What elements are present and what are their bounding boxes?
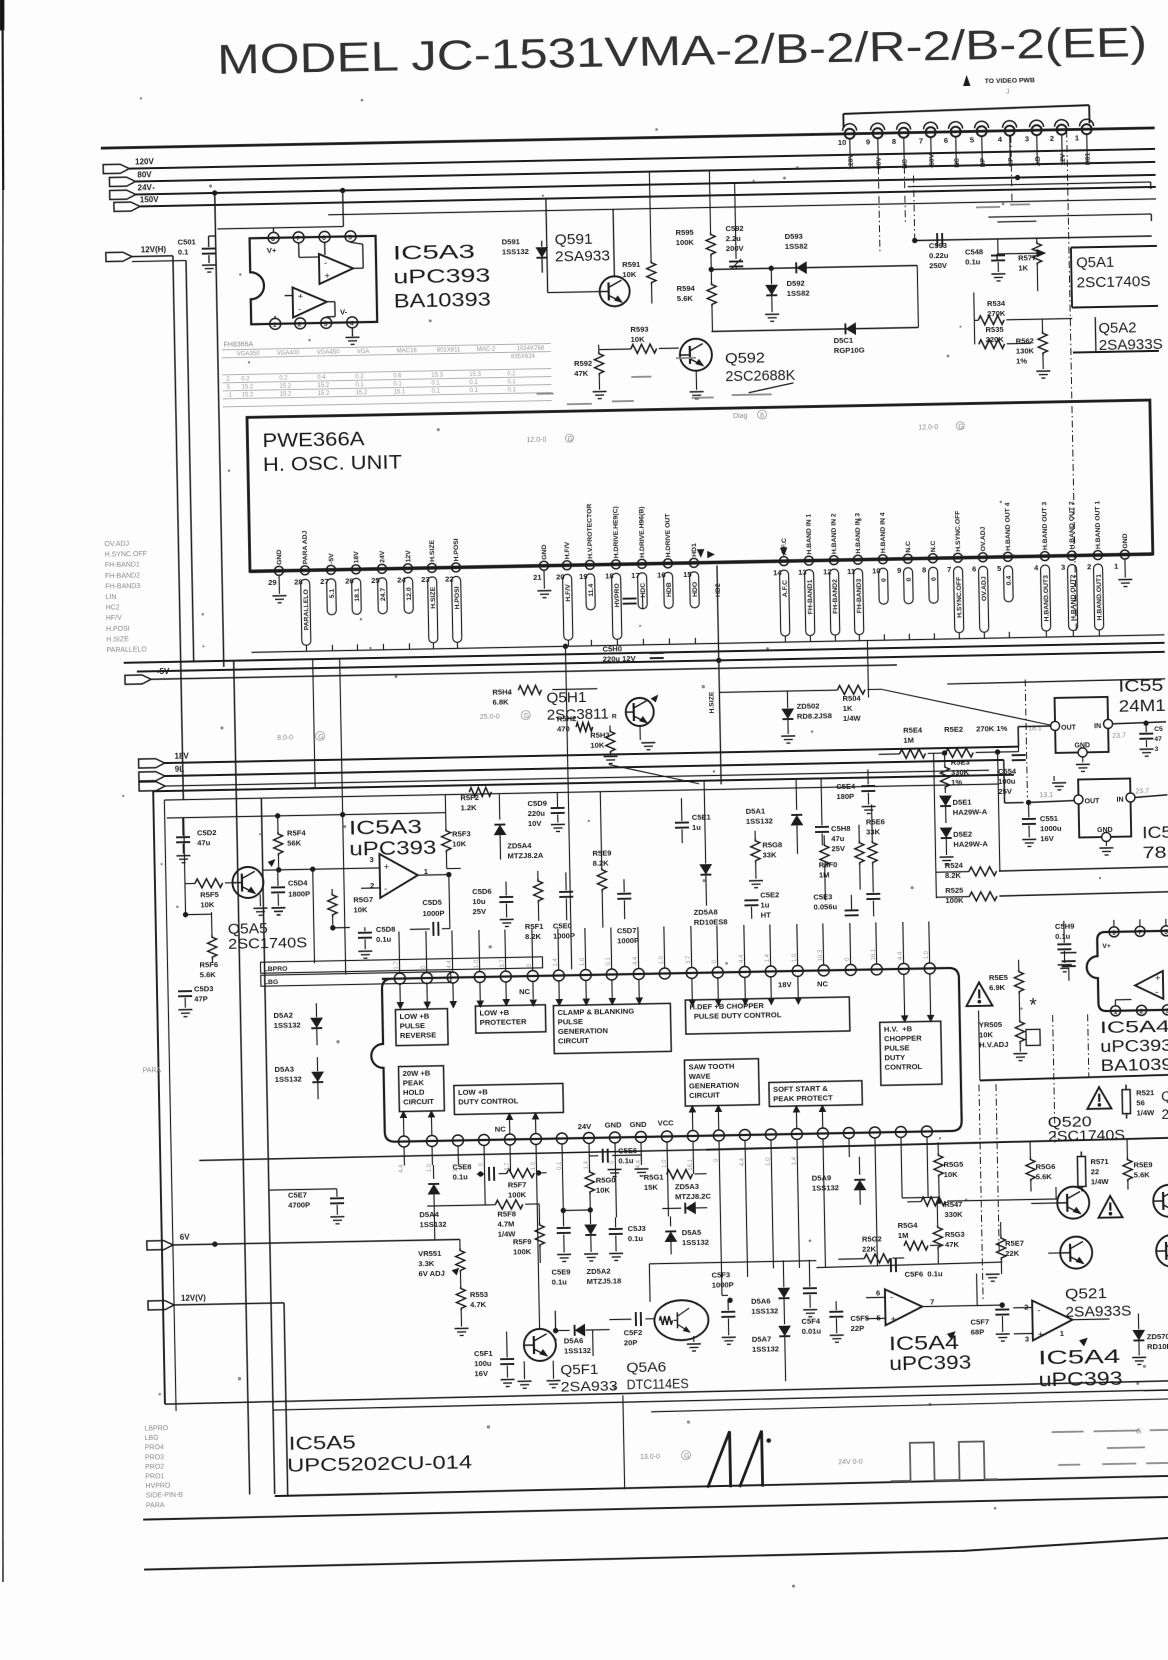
capacitor C5E8 (452, 1161, 541, 1182)
svg-text:H. OSC. UNIT: H. OSC. UNIT (263, 452, 403, 476)
svg-text:10K: 10K (944, 1170, 959, 1179)
svg-text:IN: IN (1116, 797, 1123, 804)
diode D5C1 (710, 265, 919, 357)
capacitor C5D2 (176, 817, 217, 863)
diode ZD502 (780, 690, 832, 743)
wire Q5A1 input arrow (997, 250, 1045, 260)
pin 3 PWE366A (1060, 501, 1078, 637)
svg-text:5.6K: 5.6K (677, 294, 694, 303)
capacitor C592 (725, 183, 745, 269)
svg-text:23.7: 23.7 (1135, 788, 1149, 795)
transistor Q591 (546, 197, 630, 308)
svg-text:3: 3 (1154, 746, 1158, 753)
svg-text:SAW TOOTH: SAW TOOTH (688, 1062, 734, 1072)
svg-text:1K: 1K (843, 704, 853, 713)
pin 18 PWE366A (604, 506, 622, 645)
connector pin 5 video (969, 121, 989, 167)
wire main block top (153, 775, 1026, 1404)
svg-text:3: 3 (324, 321, 328, 328)
pin 9 IC5A4 top (1109, 920, 1119, 937)
svg-text:R504: R504 (842, 694, 861, 703)
svg-text:PULSE: PULSE (558, 1017, 583, 1026)
svg-text:1000P: 1000P (712, 1280, 734, 1289)
svg-text:Q591: Q591 (555, 232, 593, 249)
resistor R5G8 (748, 830, 783, 888)
svg-text:100K: 100K (513, 1247, 532, 1256)
block LOW +B DUTY CONTROL (454, 1083, 564, 1114)
svg-text:C5D9: C5D9 (527, 799, 547, 808)
node PARA (142, 1067, 161, 1074)
svg-text:IC5A5: IC5A5 (289, 1432, 356, 1453)
wire bottom frame E (144, 1538, 1168, 1570)
svg-text:3: 3 (1025, 1335, 1029, 1344)
svg-text:R5E6: R5E6 (866, 817, 885, 826)
pin bottom 17 IC5A5 (817, 1128, 829, 1158)
svg-text:FH-BAND3: FH-BAND3 (105, 583, 140, 591)
svg-text:0.1: 0.1 (469, 388, 478, 394)
svg-text:LOW +B: LOW +B (458, 1087, 488, 1097)
svg-text:1SS82: 1SS82 (785, 242, 808, 251)
wire Q520 node (979, 1007, 1168, 1081)
capacitor C5F3 (711, 1270, 735, 1344)
pin 3 IC5A3 (321, 317, 332, 328)
svg-text:6: 6 (322, 235, 326, 242)
svg-text:1%: 1% (951, 778, 962, 787)
pin 2 IC5A3 (295, 318, 306, 329)
svg-text:56K: 56K (287, 838, 302, 847)
svg-text:12V(V): 12V(V) (181, 1293, 206, 1302)
transistor Q592 (680, 337, 796, 399)
svg-text:D592: D592 (786, 279, 804, 288)
svg-text:H.F/V: H.F/V (565, 584, 572, 602)
capacitor C5E4 (836, 769, 876, 814)
svg-text:R: R (612, 713, 617, 720)
svg-text:250V: 250V (929, 261, 948, 270)
svg-text:H.BAND OUT 2: H.BAND OUT 2 (1068, 501, 1076, 550)
svg-text:0.1u: 0.1u (453, 1172, 469, 1181)
svg-text:12V(H): 12V(H) (141, 245, 167, 254)
svg-text:12.0-0: 12.0-0 (918, 424, 938, 431)
svg-text:C501: C501 (178, 237, 197, 246)
note 8.0-0 G (277, 731, 325, 741)
pin bottom 19 IC5A5 (869, 1127, 881, 1157)
svg-text:D5E1: D5E1 (952, 798, 972, 807)
svg-text:CONTROL: CONTROL (885, 1062, 923, 1072)
resistor R592 (574, 344, 607, 399)
label IC5A5 pin names (492, 979, 831, 1133)
node LBPRO (260, 957, 542, 973)
svg-text:SIDE-PIN-B: SIDE-PIN-B (146, 1492, 184, 1500)
pin 7 IC5A4 top (1135, 919, 1145, 936)
svg-text:1/4W: 1/4W (843, 714, 862, 723)
svg-text:DUTY CONTROL: DUTY CONTROL (458, 1096, 519, 1106)
label IC5A5 UPC5202 (287, 1430, 473, 1476)
capacitor C5D5 (409, 875, 450, 937)
svg-text:H.SYNC.OFF: H.SYNC.OFF (105, 551, 148, 559)
pin bottom 1 IC5A5 (398, 1136, 410, 1166)
svg-text:GENERATION: GENERATION (558, 1026, 608, 1036)
svg-text:0.4: 0.4 (317, 375, 326, 381)
svg-text:10K: 10K (452, 839, 467, 848)
svg-text:CIRCUIT: CIRCUIT (689, 1090, 720, 1100)
svg-text:H.V.ADJ: H.V.ADJ (979, 1040, 1008, 1050)
svg-text:2SA933S: 2SA933S (1065, 1304, 1131, 1321)
waveform square (890, 1441, 998, 1481)
svg-text:HT: HT (761, 910, 772, 919)
svg-text:1.0: 1.0 (662, 1159, 668, 1168)
transistor Q525 right (1156, 1234, 1168, 1267)
pin bottom 2 IC5A5 (426, 1135, 438, 1165)
svg-text:1000P: 1000P (553, 931, 575, 940)
connector J-video bracket (843, 105, 1089, 128)
svg-text:33K: 33K (866, 827, 881, 836)
pin top 6 IC5A5 (526, 929, 538, 982)
wire bottom pin extensions (399, 1154, 942, 1334)
svg-text:GND: GND (630, 1120, 648, 1129)
svg-text:MAC16: MAC16 (397, 348, 418, 354)
svg-text:8.0-0: 8.0-0 (277, 735, 293, 742)
waveform sawtooth (707, 1431, 772, 1488)
svg-text:2: 2 (1087, 562, 1091, 571)
svg-text:24V: 24V (138, 183, 153, 192)
svg-text:UPC5202CU-014: UPC5202CU-014 (287, 1452, 472, 1476)
wire 9L bus (139, 749, 1024, 820)
pin bottom 7 IC5A5 (556, 1133, 568, 1163)
svg-text:DTC114ES: DTC114ES (627, 1376, 689, 1392)
svg-text:130K: 130K (1016, 346, 1035, 355)
ground IC551 (1076, 757, 1090, 771)
svg-text:D593: D593 (785, 232, 803, 241)
svg-text:GND: GND (1074, 742, 1090, 749)
resistor R562 (1015, 319, 1050, 379)
diode D593 (711, 230, 918, 275)
pin bottom 18 IC5A5 (843, 1127, 855, 1157)
resistor R5G6 (1026, 1140, 1056, 1192)
svg-text:PRO4: PRO4 (145, 1444, 164, 1451)
svg-text:2SA933S: 2SA933S (1099, 337, 1163, 354)
svg-text:2SC1740S: 2SC1740S (1076, 274, 1150, 291)
capacitor C5D9 (527, 792, 565, 832)
svg-text:D5A7: D5A7 (752, 1335, 772, 1344)
svg-text:G: G (318, 734, 324, 741)
svg-text:68P: 68P (971, 1327, 985, 1336)
capacitor C5H0 (602, 643, 663, 663)
pin 8 PWE366A (922, 540, 939, 639)
svg-text:R5G3: R5G3 (945, 1230, 965, 1239)
svg-text:Q592: Q592 (725, 350, 765, 367)
pin bottom 3 IC5A5 (452, 1135, 464, 1165)
capacitor C501 (178, 236, 217, 273)
transistor Q524 right (1153, 1185, 1168, 1218)
svg-text:H.BAND OUT 4: H.BAND OUT 4 (1004, 502, 1012, 551)
svg-text:G: G (684, 1453, 690, 1460)
svg-text:25.0-0: 25.0-0 (480, 714, 500, 721)
capacitor C5E6 (589, 1146, 649, 1177)
pin top 8 IC5A5 (579, 928, 591, 981)
svg-text:H.BAND.OUT3: H.BAND.OUT3 (1043, 575, 1051, 622)
svg-text:0.1u: 0.1u (965, 257, 981, 266)
svg-text:16.1: 16.1 (871, 948, 877, 960)
label IC5A4 BA10393 (1100, 1017, 1168, 1075)
svg-text:R5F6: R5F6 (199, 960, 218, 969)
svg-text:22P: 22P (851, 1324, 865, 1333)
svg-text:IC5A3: IC5A3 (393, 242, 475, 265)
label IC5A4a (889, 1333, 972, 1376)
svg-text:5.6K: 5.6K (1036, 1172, 1053, 1181)
svg-text:H01: H01 (1085, 152, 1092, 165)
svg-text:Q5F1: Q5F1 (560, 1362, 598, 1378)
svg-text:1000P: 1000P (617, 936, 639, 945)
resistor R571 (1077, 1151, 1110, 1192)
svg-text:H.BAND.OUT2: H.BAND.OUT2 (1070, 574, 1078, 621)
resistor R553 (453, 1272, 488, 1336)
svg-text:R5F8: R5F8 (497, 1209, 516, 1218)
svg-text:11: 11 (847, 567, 856, 576)
svg-text:0.1: 0.1 (355, 382, 364, 388)
pin 2 IC5A4 bottom (1136, 1005, 1146, 1015)
capacitor C5D3 (178, 984, 214, 1017)
svg-text:15.2: 15.2 (356, 390, 368, 396)
wire main top bus (101, 128, 1155, 148)
transistor Q520 label (1048, 1114, 1126, 1145)
capacitor C5D7 (616, 879, 639, 945)
svg-text:4.4: 4.4 (399, 1164, 405, 1173)
wire bus under PWE B (124, 643, 1165, 663)
wire 6V rail (147, 1227, 460, 1250)
transistor Q5A5 (227, 859, 308, 952)
label IC5A4b (1038, 1347, 1123, 1392)
svg-text:MTZJ5.18: MTZJ5.18 (587, 1276, 622, 1286)
block H.V. CHOPPER (880, 1021, 942, 1085)
capacitor C5J3 (608, 1217, 646, 1261)
wire dashed right vertical (1067, 131, 1077, 631)
capacitor C5E2 (744, 890, 780, 920)
svg-text:A.F.C: A.F.C (782, 580, 789, 597)
svg-text:RD8.2JS8: RD8.2JS8 (797, 711, 832, 721)
pin bottom 20 IC5A5 (895, 1126, 907, 1156)
capacitor C5F5 (829, 1301, 870, 1343)
svg-text:D591: D591 (502, 237, 521, 246)
svg-text:7: 7 (919, 136, 923, 145)
svg-text:BA1039: BA1039 (1100, 1055, 1168, 1075)
pin 5 IC5A4 top (1161, 919, 1168, 936)
svg-text:HDB: HDB (666, 582, 673, 597)
capacitor C5F1 (474, 1331, 561, 1390)
svg-text:4700P: 4700P (288, 1200, 310, 1209)
svg-text:24V: 24V (379, 550, 386, 563)
capacitor C5F2 (609, 1312, 656, 1348)
pin 5 PWE366A (996, 502, 1014, 638)
svg-text:1SS132: 1SS132 (502, 247, 529, 257)
potentiometer YR505 (979, 1019, 1041, 1061)
svg-text:4.4: 4.4 (633, 956, 639, 965)
svg-text:VGA450: VGA450 (317, 350, 340, 356)
pin top 12 IC5A5 (685, 926, 697, 979)
svg-text:HA29W-A: HA29W-A (953, 839, 988, 849)
transistor Q5A1 block (1071, 246, 1158, 308)
resistor R5F5 (181, 817, 232, 917)
svg-text:-: - (1037, 1305, 1040, 1316)
wire dashdot col B (996, 1084, 999, 1254)
diode D591 (502, 237, 548, 274)
resistor R5E2 (933, 724, 1019, 758)
svg-text:2SC1740S: 2SC1740S (228, 935, 307, 953)
svg-text:R521: R521 (1136, 1088, 1155, 1097)
svg-text:0.1: 0.1 (393, 381, 402, 387)
svg-text:Q5: Q5 (1161, 1089, 1168, 1104)
svg-text:Diag: Diag (733, 413, 748, 420)
svg-text:8.2K: 8.2K (593, 859, 610, 868)
resistor R5E4 (878, 725, 934, 759)
svg-text:1.0: 1.0 (766, 1157, 772, 1166)
svg-text:80V: 80V (876, 157, 883, 170)
svg-text:HF/V: HF/V (106, 615, 122, 622)
wire main block inner (164, 784, 1011, 1411)
svg-text:47u: 47u (831, 834, 845, 843)
svg-text:GND: GND (541, 544, 548, 559)
pin 6 PWE366A (971, 526, 989, 638)
node bottom-left signal labels (144, 1425, 183, 1510)
pin 12 PWE366A (822, 513, 840, 641)
svg-text:ZD502: ZD502 (797, 701, 820, 710)
block CLAMP BLANKING (553, 1003, 671, 1053)
svg-text:H.POSI: H.POSI (454, 586, 461, 609)
svg-text:H.SYNC.OFF: H.SYNC.OFF (954, 511, 962, 552)
svg-text:10K: 10K (979, 1030, 994, 1039)
svg-text:+: + (384, 862, 390, 873)
pin top 19 IC5A5 (870, 922, 882, 975)
svg-text:LIN: LIN (105, 594, 116, 601)
wire reg2 in (1135, 795, 1167, 798)
svg-text:11.4: 11.4 (588, 584, 595, 597)
capacitor C548 (965, 239, 1006, 282)
wire connector stub lines (878, 136, 1013, 255)
label IC552 7805 (1142, 823, 1168, 863)
svg-text:NC: NC (954, 158, 961, 168)
diode ZD5A3 (662, 1182, 712, 1214)
svg-text:D5A1: D5A1 (746, 807, 766, 816)
svg-text:OV.ADJ: OV.ADJ (980, 526, 987, 551)
svg-text:1.0: 1.0 (580, 957, 586, 966)
svg-text:0.1: 0.1 (606, 956, 612, 965)
ground IC5A3 pin4 (345, 328, 359, 344)
svg-text:47P: 47P (194, 994, 208, 1003)
svg-text:18V: 18V (353, 551, 360, 564)
svg-text:HDC: HDC (640, 583, 647, 598)
connector pin 4 video (997, 121, 1017, 167)
resistor R5E6 (854, 804, 887, 917)
pin top 4 IC5A5 (473, 930, 485, 983)
svg-text:1.7: 1.7 (394, 961, 400, 970)
svg-text:PULSE DUTY CONTROL: PULSE DUTY CONTROL (690, 1010, 782, 1021)
svg-text:uPC393: uPC393 (889, 1353, 971, 1376)
diode ZD5A8 (691, 780, 728, 927)
pin top 3 IC5A5 (446, 930, 458, 983)
svg-text:6.8K: 6.8K (492, 697, 509, 706)
svg-text:100K: 100K (676, 238, 695, 247)
svg-text:C5F1: C5F1 (474, 1349, 494, 1358)
resistor R594 (676, 269, 717, 332)
svg-text:12V: 12V (405, 550, 412, 563)
resistor R5G1 (644, 1169, 707, 1192)
svg-text:4.7M: 4.7M (497, 1219, 514, 1228)
svg-text:10K: 10K (622, 270, 637, 279)
svg-text:Q521: Q521 (1065, 1286, 1107, 1303)
svg-text:15.2: 15.2 (241, 384, 253, 390)
pin bottom 12 IC5A5 (687, 1130, 699, 1160)
wire reg1 out (1018, 725, 1050, 728)
note 13.0-0 G (640, 1451, 691, 1461)
svg-text:R553: R553 (470, 1290, 488, 1299)
wire right mid vertical (995, 750, 1002, 871)
svg-text:R5G0: R5G0 (596, 1175, 616, 1184)
svg-text:47K: 47K (574, 369, 589, 378)
svg-text:VGA400: VGA400 (277, 350, 300, 356)
svg-text:C5E0: C5E0 (553, 921, 572, 930)
svg-text:1.4: 1.4 (553, 958, 559, 967)
svg-text:C5E1: C5E1 (692, 813, 712, 822)
svg-text:1SS132: 1SS132 (751, 1306, 778, 1316)
svg-text:8: 8 (922, 565, 926, 574)
svg-text:YR505: YR505 (979, 1020, 1003, 1029)
svg-text:0.1u: 0.1u (1055, 932, 1071, 941)
svg-text:0.6: 0.6 (393, 373, 402, 379)
block LOW +B PULSE REVERSE (395, 1009, 448, 1046)
svg-text:12.0: 12.0 (406, 587, 413, 601)
pin bottom 14 IC5A5 (739, 1129, 751, 1159)
svg-text:C5D3: C5D3 (194, 984, 214, 993)
svg-text:150V: 150V (140, 195, 160, 204)
svg-text:8: 8 (892, 137, 896, 146)
resistor R5G2 (838, 1234, 905, 1264)
svg-text:PULSE: PULSE (884, 1043, 909, 1052)
svg-text:0.1u: 0.1u (618, 1156, 634, 1165)
resistor R5F8 (427, 1199, 540, 1240)
svg-text:2: 2 (370, 881, 374, 890)
svg-text:6: 6 (972, 564, 976, 573)
svg-text:CLAMP & BLANKING: CLAMP & BLANKING (557, 1007, 634, 1017)
pin top 7 IC5A5 (552, 928, 564, 981)
node H.SIZE (708, 691, 715, 714)
svg-text:0.2: 0.2 (279, 376, 288, 382)
svg-text:C5D4: C5D4 (288, 878, 308, 887)
svg-text:1SS132: 1SS132 (419, 1220, 446, 1230)
diode ZD5A2 (561, 1207, 621, 1286)
resistor R5E5 (989, 960, 1025, 1021)
svg-text:6V ADJ: 6V ADJ (418, 1269, 444, 1279)
pin 14 PWE366A (772, 538, 789, 642)
resistor R5G0 (585, 1161, 616, 1210)
transistor Q5A2 block (1072, 316, 1163, 355)
svg-text:0.1: 0.1 (431, 381, 440, 387)
svg-text:R5E7: R5E7 (1005, 1239, 1024, 1248)
svg-text:MAC-2: MAC-2 (477, 347, 496, 353)
svg-text:uPC393: uPC393 (349, 838, 436, 861)
pin 10 PWE366A (871, 512, 889, 640)
wire bottom misc (590, 1187, 1060, 1393)
svg-text:1.4: 1.4 (792, 1156, 798, 1165)
svg-text:0.4: 0.4 (1006, 576, 1013, 586)
svg-text:RD10ES: RD10ES (1147, 1342, 1168, 1352)
svg-text:C551: C551 (1040, 814, 1059, 823)
svg-text:200V: 200V (726, 244, 745, 253)
block H.DEF CHOPPER (685, 997, 850, 1034)
svg-text:Q5H1: Q5H1 (546, 690, 586, 707)
svg-text:- G: - G (1132, 1428, 1142, 1435)
svg-text:1SS132: 1SS132 (812, 1183, 839, 1193)
svg-text:PEAK: PEAK (403, 1078, 425, 1087)
svg-text:270K 1%: 270K 1% (976, 724, 1008, 734)
